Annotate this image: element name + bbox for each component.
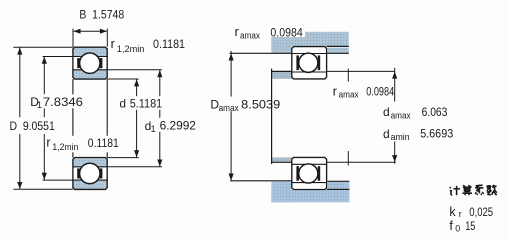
svg-text:1,2min: 1,2min	[117, 44, 145, 54]
svg-text:0: 0	[455, 223, 460, 233]
svg-text:f: f	[449, 219, 453, 233]
svg-text:d: d	[383, 105, 390, 119]
svg-text:6.2992: 6.2992	[160, 118, 197, 132]
shaft shoulder piece (upper left)	[272, 72, 292, 79]
dimension D line with arrows	[13, 46, 73, 48]
dimension da line with arrows	[394, 68, 396, 102]
svg-text:0.0984: 0.0984	[270, 25, 303, 39]
svg-text:amin: amin	[391, 132, 410, 142]
svg-text:amax: amax	[339, 89, 359, 99]
dimension d1 line with arrows	[107, 69, 162, 71]
housing section (lower): band, left shoulder block, right shoulder strip	[271, 190, 349, 202]
svg-text:7.8346: 7.8346	[43, 95, 83, 109]
svg-text:r: r	[459, 209, 462, 219]
housing abutment lines Da (upper)	[327, 45, 349, 47]
svg-text:amax: amax	[219, 103, 239, 113]
svg-text:d: d	[383, 127, 390, 141]
heading (CJK) calculation factors	[449, 187, 451, 189]
svg-text:d: d	[119, 97, 126, 111]
dimension D1 line with arrows	[43, 56, 73, 58]
svg-text:amax: amax	[391, 110, 411, 120]
svg-text:r: r	[111, 37, 115, 51]
shaft shoulder line da (upper right) with end tick	[327, 70, 395, 72]
svg-text:B 1.5748: B 1.5748	[79, 8, 124, 22]
svg-text:1: 1	[37, 100, 42, 110]
svg-text:D 9.0551: D 9.0551	[10, 119, 56, 133]
dimension B width line with arrows	[72, 29, 74, 48]
svg-text:0.1181: 0.1181	[88, 136, 119, 150]
mounted bearing cross-section, lower half (right figure)	[292, 157, 327, 189]
svg-text:5.1181: 5.1181	[130, 97, 163, 111]
svg-text:8.5039: 8.5039	[241, 98, 280, 112]
dimension d line with arrows	[107, 78, 139, 80]
svg-text:k: k	[449, 205, 456, 219]
bearing face silhouette lines (left figure)	[72, 79, 74, 94]
housing abutment lines Da (lower)	[327, 188, 350, 190]
svg-text:6.063: 6.063	[422, 105, 448, 119]
shaft shoulder face line	[271, 69, 273, 164]
svg-text:0.1181: 0.1181	[153, 37, 185, 51]
svg-text:r: r	[46, 135, 50, 149]
svg-text:1,2min: 1,2min	[52, 142, 78, 152]
shaft shoulder line da (lower right) with end tick	[327, 161, 396, 163]
dimension Da line with arrows	[230, 51, 232, 97]
svg-text:r: r	[235, 25, 239, 39]
svg-text:1: 1	[151, 124, 156, 134]
svg-text:amax: amax	[240, 30, 260, 40]
bearing cross-section, lower half (left figure)	[73, 158, 107, 190]
shaft shoulder piece (lower left)	[272, 157, 292, 161]
bearing cross-section, upper half (left figure)	[73, 47, 107, 79]
mounted bearing cross-section, upper half (right figure)	[292, 47, 327, 79]
svg-text:0,025: 0,025	[469, 205, 493, 219]
label ramax 0.0984 (upper, housing fillet)	[267, 25, 306, 37]
svg-text:r: r	[333, 84, 337, 98]
housing section (upper): band, left shoulder block, right shoulder strip	[271, 32, 348, 46]
svg-text:5.6693: 5.6693	[420, 127, 453, 141]
svg-text:15: 15	[465, 219, 475, 233]
svg-text:0.0984: 0.0984	[366, 84, 394, 98]
